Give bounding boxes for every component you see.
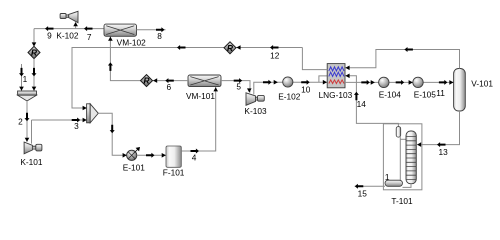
wire stream 5 [221,81,250,93]
recycle R1 [28,46,40,58]
svg-text:E-105: E-105 [414,90,437,100]
svg-text:R: R [31,48,37,58]
svg-text:7: 7 [87,32,92,42]
wire condenser to column [401,138,407,140]
arrow on V-101 top line [404,47,413,52]
arrow stream 3 [72,118,81,123]
arrow stream 4 [191,149,200,154]
arrow stream 13 [437,142,446,147]
wire V-101 top vapor to LNG [346,50,460,69]
svg-text:F-101: F-101 [163,168,185,178]
svg-text:10: 10 [301,85,311,95]
svg-text:8: 8 [157,31,162,41]
compressor K-103 [246,93,264,106]
wire K-102 inlet stub [75,23,77,29]
arrow stream 1 [19,68,24,77]
condenser of T-101 [396,127,401,138]
arrow stream 14 [354,92,359,101]
column sub-flowsheet T-101 boundary [383,124,422,190]
arrow on R1 outlet [32,68,37,77]
svg-text:9: 9 [47,31,52,41]
wire stream 15 [355,185,385,187]
arrowhead into LNG right top [345,66,349,71]
arrowhead into E-101 [123,153,127,158]
svg-text:R: R [144,76,150,86]
compressor K-102 [60,11,78,22]
wire LNG outlet to V-101 [345,81,454,83]
wire K-103 discharge to E-102 and LNG [254,82,327,94]
arrowhead into recycle R1 [32,42,37,46]
arrowhead into K-102 [73,22,78,26]
svg-text:R: R [227,43,233,53]
arrow on riser [108,62,113,71]
arrowhead into mixer left inlet [19,87,24,91]
arrowhead into column T-101 [417,142,421,147]
svg-text:K-102: K-102 [56,31,79,41]
wire stream 6 and riser to VM-102 [110,36,188,80]
compressor K-101 [24,142,42,154]
LNG exchanger LNG-103 [327,64,345,88]
svg-text:1: 1 [385,172,390,182]
arrowhead into recycle R2 [153,78,157,83]
svg-text:11: 11 [436,88,445,98]
wire condenser reflux [399,137,401,180]
arrowhead into LNG right mid [345,74,349,79]
wire stream 8 [137,29,166,31]
arrowhead into VM-101 bottom [213,87,218,91]
svg-text:3: 3 [74,121,79,131]
wire stream 14 from T-101 to LNG [346,76,399,127]
feed stream 1 wire [21,64,23,91]
column tower T-101 [406,131,416,184]
cooler E-104 [379,77,389,87]
svg-text:E-101: E-101 [123,162,146,172]
svg-text:T-101: T-101 [391,196,413,206]
wire stream 4 [181,87,215,151]
arrowhead into mixer2 top inlet [83,106,87,111]
svg-text:2: 2 [18,117,23,127]
arrow stream 5 [234,78,243,83]
separator F-101 [166,146,181,167]
arrowhead into E-105 [409,80,413,85]
svg-text:K-101: K-101 [20,157,43,167]
svg-text:13: 13 [438,147,448,157]
arrowhead into VM-102 bottom [108,37,113,41]
arrowhead into recycle R3 [236,45,240,50]
wire stream 9 drop to recycle [33,29,35,46]
svg-text:V-101: V-101 [471,79,493,89]
wire LNG second inlet loop [319,76,327,82]
arrow stream 2 [25,113,30,122]
wire stream 3 [32,119,87,121]
arrow after K-103 [263,80,272,85]
wire E-101 to F-101 [137,154,166,156]
cooler E-101 [127,147,140,160]
wire column bottom to reboiler [403,184,412,188]
wire mixer2 outlet to E-101 [98,113,126,155]
svg-text:E-104: E-104 [379,90,402,100]
svg-text:12: 12 [270,51,280,61]
arrow stream 9 [45,26,54,31]
svg-text:E-102: E-102 [278,92,301,102]
cooler E-105 [413,77,423,87]
svg-text:5: 5 [236,82,241,92]
recycle R2 [141,75,153,87]
wire stream 12 line to mixer2 elbow [72,48,302,109]
arrow stream 10 [301,80,310,85]
arrowhead into E-102 [274,80,278,85]
svg-text:K-103: K-103 [244,106,267,116]
vessel V-101 [454,69,466,112]
arrowhead into mixer right inlet [32,87,37,91]
svg-text:VM-102: VM-102 [117,37,146,47]
svg-text:4: 4 [192,153,197,163]
wire stream 13 V-101 bottoms to T-101 [417,111,459,145]
mixer MIX-100 (funnel) [18,91,37,101]
arrowhead into E-104 [371,80,375,85]
wire top line streams 9/7 [34,28,104,30]
reboiler of T-101 [385,180,403,186]
svg-text:LNG-103: LNG-103 [319,90,353,100]
wire K-101 discharge [31,120,33,144]
mixer MIX-101 (cone right) [87,104,99,123]
arrowhead into V-101 [449,80,453,85]
svg-text:VM-101: VM-101 [186,91,215,101]
svg-text:15: 15 [358,188,368,198]
splitter VM-101 [188,75,221,87]
wire stream 2 [26,101,28,142]
arrow on stream 12 line mid [177,45,186,50]
splitter VM-102 [104,24,137,36]
arrow after LNG [361,80,370,85]
arrow on E-101 inlet vertical [110,125,115,134]
arrowhead into LNG-103 [323,80,327,85]
arrowhead into K-103 [247,88,252,92]
arrow stream 12 [270,45,279,50]
arrow stream 8 [156,27,165,32]
svg-text:6: 6 [166,82,171,92]
svg-text:14: 14 [357,99,367,109]
arrow stream 15 [355,184,364,189]
arrow stream 11 [439,80,448,85]
arrow stream 7 [84,26,93,31]
arrow stream 6 [165,78,174,83]
svg-text:1: 1 [23,74,28,84]
arrow after E-104 [396,80,405,85]
wire R1 to mixer [33,59,35,91]
arrow after E-101 [146,153,155,158]
arrowhead into F-101 [162,153,166,158]
arrowhead into mixer2 [83,118,87,123]
wire stream 12 exit from LNG [302,48,327,70]
recycle R3 [224,42,236,54]
arrowhead into K-101 [25,138,30,142]
cooler E-102 [283,77,293,87]
